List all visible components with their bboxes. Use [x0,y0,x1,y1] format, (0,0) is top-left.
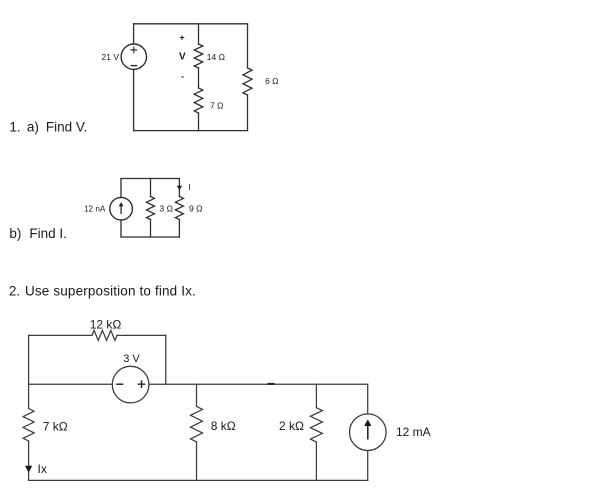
svg-text:2.: 2. [9,284,20,299]
wire circuit3 right branch lower [367,451,369,481]
svg-text:21 V: 21 V [102,52,120,62]
svg-text:-: - [181,72,184,82]
Vs1 minus sign [131,65,136,67]
wire circuit3 top-left of loop [29,334,92,336]
current arrow I [177,186,182,191]
Ix arrow [25,466,32,473]
wire circuit1 bottom [134,130,248,132]
voltage source Vs1 21V [121,44,146,69]
svg-text:I: I [188,182,190,192]
resistor 9ohm [175,197,183,220]
wire circuit2 left upper [120,179,122,198]
wire circuit1 middle mid [198,68,200,88]
wire circuit2 top [121,178,179,180]
svg-text:6 Ω: 6 Ω [265,76,278,86]
svg-text:7 Ω: 7 Ω [210,101,223,111]
current source Is2 12mA [350,414,387,451]
resistor 6ohm [243,68,252,95]
wire circuit2 right lower [178,220,180,238]
resistor 12k [92,330,117,340]
wire circuit3 left vertical lower [28,441,30,480]
resistor 8k [191,406,203,442]
junction tick on main wire [268,383,275,385]
svg-text:12 kΩ: 12 kΩ [90,318,122,332]
svg-text:3 Ω: 3 Ω [160,203,173,213]
resistor 7ohm [194,88,203,113]
svg-text:8 kΩ: 8 kΩ [211,419,236,433]
svg-text:+: + [179,33,184,43]
Is1 arrow [119,202,124,214]
wire circuit3 left vertical upper [28,335,30,408]
wire circuit3 right branch upper [367,384,369,414]
resistor 2k [310,408,322,442]
Is2 arrow [364,419,371,439]
svg-text:1.: 1. [9,119,20,134]
svg-text:Find I.: Find I. [29,226,67,241]
svg-text:12 nA: 12 nA [84,204,106,213]
wire circuit3 8k branch upper [196,384,198,406]
wire circuit3 8k branch lower [196,442,198,481]
svg-text:V: V [179,52,186,63]
svg-text:a): a) [27,119,39,134]
current source Is1 12nA [110,197,133,220]
wire circuit2 bottom [121,236,179,238]
wire circuit1 right upper [247,24,249,68]
svg-text:7 kΩ: 7 kΩ [43,420,68,434]
wire circuit3 2k branch upper [315,384,317,408]
wire circuit2 mid lower [150,220,152,238]
wire circuit3 main left segment [29,383,113,385]
wire circuit2 mid upper [150,179,152,197]
wire circuit1 left lower [133,69,135,130]
wire circuit1 middle lower [198,113,200,131]
wire circuit3 main right segment [149,383,368,385]
Vs1 plus sign [131,47,137,53]
wire circuit1 top [134,23,248,25]
svg-text:9 Ω: 9 Ω [189,203,202,213]
Vs2 minus sign [116,383,123,385]
svg-text:Ix: Ix [38,462,47,476]
svg-text:Use superposition to find Ix.: Use superposition to find Ix. [25,284,196,299]
svg-text:Find V.: Find V. [46,119,88,134]
wire circuit1 left upper [133,24,135,44]
wire circuit3 2k branch lower [315,442,317,480]
resistor 3ohm [147,197,155,220]
wire circuit1 middle upper [198,24,200,44]
svg-text:3 V: 3 V [123,353,140,365]
svg-text:14 Ω: 14 Ω [207,52,225,62]
wire circuit1 right lower [247,95,249,131]
voltage source Vs2 3V [112,366,149,403]
svg-text:12 mA: 12 mA [396,425,431,439]
wire circuit3 loop right vertical [165,335,167,384]
resistor 14ohm [194,44,203,68]
wire circuit2 right upper [178,179,180,197]
wire circuit3 bottom [29,479,368,481]
Vs2 plus sign [138,380,146,388]
wire circuit3 top-right of loop [117,334,166,336]
svg-text:2 kΩ: 2 kΩ [279,419,304,433]
wire circuit2 left lower [120,220,122,237]
svg-text:b): b) [9,226,21,241]
resistor 7k [23,409,34,442]
